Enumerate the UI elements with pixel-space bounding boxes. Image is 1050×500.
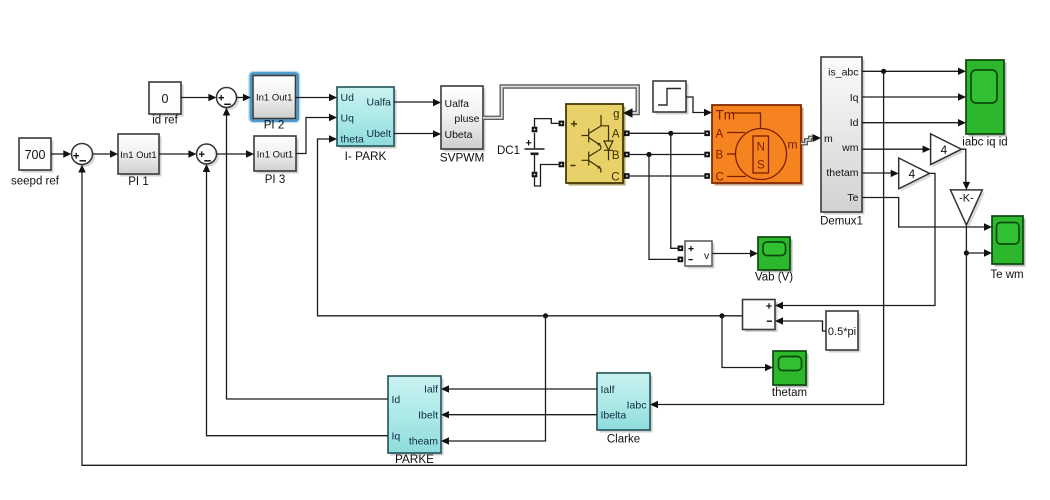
svg-text:Uq: Uq xyxy=(341,113,355,125)
svg-text:Ubelt: Ubelt xyxy=(366,128,391,140)
svg-text:Ibelt: Ibelt xyxy=(418,410,438,422)
port marker: inverter plus input xyxy=(559,121,565,127)
step source block (load torque step) xyxy=(653,81,689,115)
svg-text:Vab (V): Vab (V) xyxy=(755,272,793,284)
svg-text:Te: Te xyxy=(847,192,858,204)
wire Demux1 Id to scope iabc xyxy=(862,119,966,126)
svg-text:4: 4 xyxy=(909,167,916,181)
svg-text:4: 4 xyxy=(941,143,948,157)
svg-text:A: A xyxy=(612,129,620,141)
svg-text:Id: Id xyxy=(850,117,859,129)
svg-text:g: g xyxy=(613,109,619,121)
wire Clarke Ialf to PARKE Ialf xyxy=(441,385,597,392)
wire PARKE Id to Sum3 xyxy=(223,108,388,400)
wire PI 1 to Sum2 xyxy=(159,150,196,157)
svg-text:Clarke: Clarke xyxy=(607,434,640,446)
svg-text:thetam: thetam xyxy=(826,167,858,179)
wire inverter C to motor C xyxy=(630,175,705,177)
wire theta tap to scope thetam xyxy=(722,316,773,371)
wire gain -K- down to speed feedback and scope xyxy=(82,172,966,466)
wire gain 4 (thetam) to sum plus input xyxy=(775,173,935,309)
wire Demux1 thetam to gain 4 xyxy=(862,170,899,177)
svg-text:wm: wm xyxy=(841,142,859,154)
wire PARKE Iq to Sum2 xyxy=(203,164,388,436)
wire step to motor Tm xyxy=(686,97,704,113)
junction on phase B wire xyxy=(646,152,651,157)
sum junction Sum3 (id error) xyxy=(217,88,240,111)
wire Sum1 to PI 1 xyxy=(93,150,119,157)
port marker: motor terminal B xyxy=(704,152,710,158)
svg-text:Te wm: Te wm xyxy=(990,269,1023,281)
constant block 0 (id reference) xyxy=(149,82,184,117)
svg-text:DC1: DC1 xyxy=(497,145,520,157)
svg-text:-K-: -K- xyxy=(959,193,974,205)
svg-text:Ubeta: Ubeta xyxy=(445,129,473,141)
svg-text:In1 Out1: In1 Out1 xyxy=(256,93,292,104)
scope Te wm xyxy=(992,216,1026,267)
svg-text:Ud: Ud xyxy=(341,92,355,104)
svg-text:Ibelta: Ibelta xyxy=(601,410,627,422)
svg-text:Id: Id xyxy=(392,394,401,406)
svg-text:Ialf: Ialf xyxy=(601,384,615,396)
constant block 0.5*pi xyxy=(826,311,861,353)
svg-text:C: C xyxy=(611,172,619,184)
svg-text:Tm: Tm xyxy=(716,108,736,123)
wire Sum3 to PI 2 xyxy=(237,94,251,101)
demultiplexer Demux1 xyxy=(821,57,865,215)
scope Vab (V) xyxy=(758,237,793,273)
PMSM motor block xyxy=(712,105,804,186)
wire inverter B to motor B xyxy=(630,154,705,156)
svg-text:A: A xyxy=(716,129,724,141)
wire Clarke Ibelta to PARKE Ibelt xyxy=(441,411,597,418)
wire 0 to Sum3 xyxy=(181,94,216,101)
svg-text:C: C xyxy=(716,172,724,184)
svg-text:B: B xyxy=(716,150,724,162)
port marker: inverter output C xyxy=(624,173,630,179)
gain block 4 (wm scaling) xyxy=(931,134,964,167)
svg-text:0: 0 xyxy=(162,92,169,106)
gain block 4 (thetam scaling) xyxy=(899,158,932,191)
junction theta net to thetam scope xyxy=(719,313,724,318)
wire is_abc tap to Clarke Iabc xyxy=(650,71,884,408)
port marker: DC1 minus terminal xyxy=(532,172,538,178)
port marker: voltmeter minus xyxy=(678,257,684,263)
svg-text:PI 3: PI 3 xyxy=(265,174,285,186)
svg-text:Iabc: Iabc xyxy=(627,400,647,412)
PI controller PI 3 xyxy=(254,136,299,174)
svg-text:pluse: pluse xyxy=(454,113,479,125)
wire (vector) motor m to Demux1 m xyxy=(801,134,821,144)
battery DC1 (DC voltage source) xyxy=(525,133,545,172)
wire PI 2 to I-PARK Ud xyxy=(296,94,338,101)
svg-text:iabc iq id: iabc iq id xyxy=(962,137,1007,149)
svg-text:v: v xyxy=(704,250,710,262)
junction on is_abc wire xyxy=(881,69,886,74)
wire DC1 minus to inverter minus xyxy=(535,165,559,187)
svg-text:0.5*pi: 0.5*pi xyxy=(828,326,856,338)
sum junction Sum2 (iq error) xyxy=(197,144,220,167)
svg-text:id ref: id ref xyxy=(152,115,178,127)
wire phase B tap to voltmeter minus xyxy=(649,155,678,260)
svg-text:PI 2: PI 2 xyxy=(264,120,284,132)
svg-text:theta: theta xyxy=(341,134,365,146)
wire Demux1 wm to gain 4 xyxy=(862,146,931,153)
svg-text:Iq: Iq xyxy=(850,92,859,104)
inverse Park transform block I- PARK xyxy=(337,87,397,149)
svg-text:theam: theam xyxy=(409,436,438,448)
wire (vector) SVPWM pluse to inverter g xyxy=(483,87,638,118)
svg-text:Ualfa: Ualfa xyxy=(366,97,391,109)
wire voltmeter v to scope Vab xyxy=(712,250,758,257)
wire wm tap to scope Te wm second input xyxy=(966,249,992,256)
wire PI 3 to I-PARK Uq xyxy=(296,114,337,154)
wire I-PARK Ualfa to SVPWM Ualfa xyxy=(394,99,441,106)
port marker: inverter output A xyxy=(624,131,630,137)
wire Demux1 Te to scope Te wm xyxy=(862,198,992,231)
svg-text:700: 700 xyxy=(25,148,46,162)
port marker: voltmeter plus xyxy=(678,246,684,252)
PI controller PI 2 (selected, blue highlight) xyxy=(249,72,299,123)
arrowhead into Sum1 bottom xyxy=(78,165,85,173)
port marker: inverter output B xyxy=(624,152,630,158)
wire Demux1 is_abc to scope iabc xyxy=(862,68,966,75)
svg-text:SVPWM: SVPWM xyxy=(440,151,485,165)
wire 700 to Sum1 xyxy=(51,150,71,157)
svg-text:S: S xyxy=(757,160,765,172)
IGBT inverter bridge block xyxy=(566,104,626,186)
scope iabc iq id xyxy=(966,60,1007,137)
svg-text:In1 Out1: In1 Out1 xyxy=(120,150,156,161)
svg-text:seepd ref: seepd ref xyxy=(11,176,60,188)
svg-text:Ualfa: Ualfa xyxy=(445,98,470,110)
wire I-PARK Ubelt to SVPWM Ubeta xyxy=(394,130,441,137)
PI controller PI 1 xyxy=(118,134,162,177)
svg-text:N: N xyxy=(757,142,765,154)
svg-text:thetam: thetam xyxy=(772,387,807,399)
Park transform block PARKE (flipped) xyxy=(388,376,444,456)
scope thetam xyxy=(773,351,809,388)
voltage measurement block (Vab) xyxy=(685,241,715,269)
gain block -K- (pointing down) xyxy=(950,190,984,228)
wire Demux1 Iq to scope iabc xyxy=(862,93,966,100)
wire phase A tap to voltmeter plus xyxy=(671,133,678,248)
svg-text:PARKE: PARKE xyxy=(395,452,434,466)
wire gain 4 (wm) to gain -K- xyxy=(961,149,970,190)
svg-text:Ialf: Ialf xyxy=(424,384,438,396)
sum block (theta calculation, flipped) xyxy=(743,300,778,333)
svg-text:I- PARK: I- PARK xyxy=(345,149,387,163)
port marker: motor terminal C xyxy=(704,173,710,179)
port marker: DC1 plus terminal xyxy=(532,127,538,133)
svg-text:m: m xyxy=(824,133,833,145)
junction on phase A wire xyxy=(668,131,673,136)
wire Sum2 to PI 3 xyxy=(217,150,255,157)
wire DC1 plus to inverter plus xyxy=(535,119,559,127)
arrowhead into Tm xyxy=(704,109,712,116)
svg-text:In1 Out1: In1 Out1 xyxy=(257,150,293,161)
sum junction Sum1 (speed error) xyxy=(72,144,96,168)
Clarke transform block (flipped) xyxy=(597,373,653,433)
svg-text:Demux1: Demux1 xyxy=(820,216,863,228)
port marker: motor terminal A xyxy=(704,131,710,137)
svg-text:B: B xyxy=(612,150,620,162)
wire 0.5*pi to sum minus input xyxy=(775,317,826,331)
wire sum output theta net to I-PARK theta xyxy=(318,135,743,315)
svg-text:Iq: Iq xyxy=(392,431,401,443)
port marker: inverter minus input xyxy=(559,162,565,168)
wire inverter A to motor A xyxy=(630,132,705,134)
wire theta tap to PARKE theam xyxy=(441,316,546,445)
svg-text:is_abc: is_abc xyxy=(828,67,858,79)
junction on wm feedback for scope Te wm xyxy=(964,250,969,255)
junction theta net to PARKE theam xyxy=(543,313,548,318)
SVPWM block xyxy=(441,86,486,152)
constant block 700 (speed reference) xyxy=(19,138,54,173)
svg-text:PI 1: PI 1 xyxy=(128,176,148,188)
svg-text:m: m xyxy=(788,138,798,152)
